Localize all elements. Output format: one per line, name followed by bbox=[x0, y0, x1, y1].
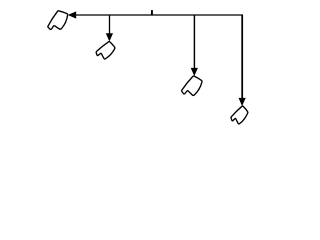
trunk bus line bbox=[73, 14, 243, 16]
node 2 tooth bbox=[96, 42, 115, 59]
branch wire 2 bbox=[193, 15, 195, 69]
arrowhead 1 down bbox=[106, 33, 113, 41]
node 4 tooth bbox=[231, 106, 248, 124]
left arrow to node 1 bbox=[68, 11, 77, 18]
branch wire 3 bbox=[241, 15, 243, 99]
arrowhead 2 down bbox=[191, 68, 198, 76]
tick label on trunk bbox=[151, 10, 153, 15]
branch wire 1 bbox=[109, 15, 111, 34]
node 3 tooth bbox=[182, 76, 202, 95]
arrowhead 3 down bbox=[239, 98, 246, 106]
node 1 tooth bbox=[48, 11, 68, 30]
